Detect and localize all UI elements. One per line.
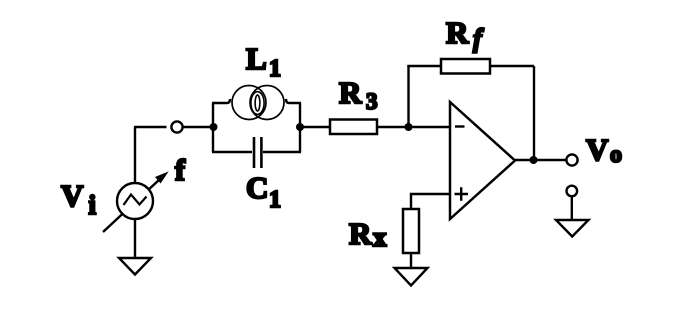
svg-text:L: L — [246, 41, 267, 76]
junction tank left — [210, 123, 218, 131]
wire op-amp output — [515, 159, 566, 161]
wire source-bottom vertical — [134, 219, 136, 258]
label C1 — [246, 170, 281, 213]
wire tank bottom-left lead — [212, 151, 252, 153]
label Rf — [446, 15, 484, 53]
ground below source — [119, 258, 151, 275]
wire tank bottom-right lead — [263, 151, 301, 153]
label Vi — [61, 178, 97, 220]
wire tank top-left lead — [212, 99, 230, 103]
wire feedback top-left — [407, 65, 441, 67]
wire tank to R3 — [300, 126, 330, 128]
svg-text:V: V — [61, 178, 84, 213]
resistor Rf — [441, 59, 490, 74]
op-amp U1 — [450, 102, 515, 219]
ground below output terminal — [556, 220, 589, 237]
label Rx — [349, 216, 387, 252]
svg-text:3: 3 — [366, 89, 378, 114]
svg-text:o: o — [610, 142, 622, 168]
svg-text:1: 1 — [269, 56, 281, 82]
resistor R3 — [330, 120, 377, 135]
junction tank right — [296, 123, 304, 131]
wire input horizontal left segment — [134, 126, 167, 128]
svg-text:C: C — [246, 170, 268, 205]
wire reference terminal to ground — [571, 197, 573, 221]
svg-text:i: i — [89, 190, 97, 220]
wire tank top-right lead — [286, 99, 301, 103]
svg-text:x: x — [373, 222, 387, 252]
svg-text:f: f — [473, 24, 484, 53]
wire feedback left vertical — [407, 66, 409, 127]
wire feedback right vertical — [533, 66, 535, 160]
svg-text:R: R — [349, 216, 372, 251]
wire R3 to op-amp inverting input — [377, 126, 450, 128]
svg-text:1: 1 — [269, 187, 281, 213]
junction output node — [530, 156, 538, 164]
wire tank left vertical — [212, 103, 214, 152]
wire terminal to tank — [184, 126, 214, 128]
svg-text:R: R — [339, 75, 362, 110]
node input terminal (open circle) — [171, 121, 182, 132]
voltage source Vi — [103, 174, 166, 232]
resistor Rx — [403, 209, 419, 253]
wire tank right vertical — [299, 103, 301, 152]
node output terminal Vo (open circle) — [566, 154, 577, 165]
wire op-amp noninverting input — [411, 194, 450, 209]
svg-text:V: V — [586, 132, 609, 167]
svg-text:R: R — [446, 15, 469, 50]
junction inverting node — [405, 123, 413, 131]
node ground reference terminal (open circle) — [567, 186, 578, 197]
svg-text:f: f — [175, 154, 186, 187]
wire Rx to ground — [410, 253, 412, 268]
label R3 — [339, 75, 378, 114]
wire source-top vertical — [134, 127, 136, 184]
inductor L1 — [232, 86, 284, 120]
wire feedback top-right — [490, 65, 534, 67]
ground below Rx — [395, 268, 428, 286]
label L1 — [246, 41, 281, 82]
capacitor C1 — [254, 137, 261, 168]
label Vo — [586, 132, 622, 168]
